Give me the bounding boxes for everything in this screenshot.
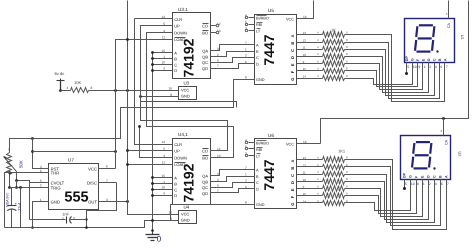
svg-text:2: 2	[429, 182, 431, 186]
wire U3.1 LOAD tie high	[116, 38, 167, 90]
resistor network RN1 1K label	[331, 28, 336, 33]
svg-text:LT: LT	[256, 29, 261, 33]
wire top QC to decoder C	[217, 58, 249, 63]
wire U1 segment c	[353, 50, 435, 96]
svg-text:8: 8	[346, 52, 348, 56]
wire U2 segment f	[353, 185, 417, 214]
svg-text:QB: QB	[202, 54, 208, 59]
svg-text:4: 4	[317, 170, 319, 174]
wire U3 GND loop	[141, 97, 237, 108]
wire U2 segment c	[353, 175, 435, 223]
svg-text:D: D	[290, 56, 295, 59]
wire U4.1 UP row	[126, 149, 166, 152]
svg-text:TRIG: TRIG	[51, 185, 61, 190]
svg-text:C: C	[433, 175, 437, 178]
unconnected terminal U6 BI/RBO	[245, 141, 247, 143]
svg-text:BO: BO	[202, 155, 208, 160]
svg-text:8: 8	[346, 38, 348, 42]
svg-text:10: 10	[413, 65, 417, 69]
svg-text:BI/RBO: BI/RBO	[256, 16, 269, 20]
unconnected terminal U3.1 BO	[216, 31, 219, 34]
svg-text:1: 1	[424, 65, 426, 69]
wire U2 segment e	[353, 185, 423, 217]
svg-text:1K: 1K	[331, 28, 336, 33]
svg-text:U6: U6	[268, 133, 274, 138]
wire U1 segment f	[353, 69, 418, 87]
wire DISC to lower jog	[99, 182, 117, 184]
unconnected terminal U3.1 CO	[216, 24, 219, 27]
wire U2 segment b	[353, 167, 441, 226]
svg-text:1: 1	[423, 182, 425, 186]
wire bottom QD to decoder D	[217, 189, 249, 193]
wire LOAD tie U4.1	[126, 163, 166, 166]
svg-text:8: 8	[245, 201, 247, 205]
svg-text:6: 6	[217, 184, 219, 188]
svg-text:5: 5	[407, 65, 409, 69]
svg-text:QD: QD	[202, 66, 208, 71]
IC U4.1 74192 ones counter	[161, 132, 220, 205]
wire U1 segment e	[353, 64, 423, 90]
capacitor C1 22uF	[6, 188, 22, 228]
svg-text:B: B	[174, 182, 177, 187]
svg-text:CO: CO	[202, 24, 208, 29]
svg-text:U5: U5	[268, 8, 274, 13]
svg-text:C: C	[174, 62, 177, 67]
svg-text:G: G	[411, 58, 415, 61]
svg-text:THR: THR	[51, 171, 60, 176]
wire 555 OUT	[99, 200, 129, 203]
wire U1 segment d	[353, 57, 429, 93]
svg-text:6v dc: 6v dc	[55, 71, 65, 76]
wire pot-bottom	[8, 171, 11, 189]
svg-text:D: D	[290, 181, 295, 184]
wire DISC/timing jog	[85, 183, 116, 229]
unconnected terminal U5 BI/RBO	[245, 16, 247, 18]
svg-text:2: 2	[429, 65, 431, 69]
wire U1 DP stub	[405, 69, 408, 76]
IC U7 555 timer	[40, 157, 108, 209]
svg-text:A: A	[290, 159, 295, 162]
svg-text:U2: U2	[457, 152, 461, 157]
svg-text:DISC: DISC	[87, 181, 97, 186]
svg-text:VCC: VCC	[181, 88, 189, 93]
svg-text:B: B	[290, 42, 295, 45]
wire +6V long line	[128, 1, 179, 215]
wire top QD to decoder D	[217, 64, 249, 69]
wire bottom QC to decoder C	[217, 183, 249, 188]
svg-text:QC: QC	[202, 60, 208, 65]
svg-text:DOWN: DOWN	[174, 155, 187, 160]
ground 0	[146, 229, 162, 243]
svg-text:1K1: 1K1	[338, 149, 346, 154]
svg-text:9: 9	[417, 182, 419, 186]
svg-text:QA: QA	[202, 174, 208, 179]
wire TRIG drop to rail	[20, 188, 22, 228]
svg-text:MDA 5V0: MDA 5V0	[6, 193, 10, 207]
svg-text:U4: U4	[184, 205, 190, 210]
wire CVOLT drop to 1nF	[29, 183, 31, 220]
wire THR left drop	[5, 173, 43, 228]
wire U6 VCC stub	[297, 143, 321, 145]
wire U5 VCC up	[303, 1, 314, 19]
unconnected terminal U6 RBI	[245, 147, 247, 149]
resistor network RN2 1K1 label	[338, 149, 346, 154]
svg-text:8: 8	[346, 45, 348, 49]
display U1 seven-segment CA	[405, 1, 465, 70]
svg-text:4: 4	[317, 52, 319, 56]
svg-text:QA: QA	[202, 49, 208, 54]
wire RST-line to 555 VCC drop	[33, 151, 116, 153]
svg-text:UP: UP	[174, 149, 180, 154]
svg-text:CA: CA	[447, 23, 451, 29]
svg-text:7447: 7447	[261, 159, 277, 190]
wire CVOLT down to TRIG row	[15, 181, 18, 189]
unconnected terminal U5 LT	[245, 29, 247, 31]
wire U2 segment d	[353, 182, 429, 220]
resistor network RN2 1K1	[303, 156, 353, 206]
svg-text:C: C	[290, 49, 295, 52]
wire +6V rail	[61, 90, 179, 92]
svg-text:GND: GND	[256, 78, 265, 82]
wire DOWN/BO chain	[147, 33, 234, 158]
svg-text:4: 4	[317, 184, 319, 188]
wire U4.1 B tie to GND	[151, 182, 166, 185]
svg-text:4: 4	[317, 38, 319, 42]
wire pot-top	[10, 139, 33, 153]
svg-text:U4,1: U4,1	[178, 132, 188, 137]
wire CVOLT jog	[17, 181, 43, 183]
svg-text:C: C	[256, 56, 259, 60]
svg-text:7: 7	[447, 182, 449, 186]
svg-text:8: 8	[91, 86, 93, 90]
svg-text:U7: U7	[68, 157, 74, 162]
svg-text:CA: CA	[444, 139, 448, 145]
wire top QB to decoder B	[217, 52, 249, 57]
junction RST-line	[31, 150, 34, 153]
svg-text:8: 8	[245, 76, 247, 80]
svg-text:D: D	[174, 68, 177, 73]
svg-text:74192: 74192	[181, 163, 197, 202]
svg-text:E: E	[290, 63, 295, 66]
junction pot-top/RST	[31, 137, 34, 140]
resistor network RN1 1K	[303, 31, 353, 81]
svg-text:8: 8	[346, 177, 348, 181]
svg-text:A: A	[174, 51, 177, 56]
svg-text:3: 3	[440, 129, 442, 133]
svg-text:BI/RBO: BI/RBO	[256, 141, 269, 145]
wire U2 CA riser	[443, 119, 445, 136]
wire top QA to decoder A	[217, 45, 249, 51]
wire bottom ground rail	[5, 221, 153, 228]
wire bottom QB to decoder B	[217, 177, 249, 182]
svg-text:GND: GND	[256, 203, 265, 207]
svg-text:D: D	[427, 58, 431, 61]
potentiometer R3 50K	[4, 148, 24, 175]
svg-text:1: 1	[245, 47, 247, 51]
wire wiper tail	[16, 172, 18, 181]
svg-text:C: C	[256, 181, 259, 185]
svg-text:5: 5	[405, 182, 407, 186]
wire RST drop	[33, 139, 43, 169]
power box U3 VCC/GND	[168, 81, 196, 100]
svg-text:VCC: VCC	[88, 166, 97, 171]
svg-text:0: 0	[157, 235, 162, 244]
svg-text:B: B	[438, 58, 442, 61]
svg-text:CO: CO	[202, 149, 208, 154]
svg-text:A: A	[290, 34, 295, 37]
svg-text:9: 9	[163, 67, 165, 71]
svg-text:B: B	[290, 167, 295, 170]
svg-text:CLR: CLR	[174, 142, 182, 147]
IC U6 7447 ones decoder	[245, 133, 307, 209]
svg-text:12: 12	[303, 38, 307, 42]
svg-text:4: 4	[317, 177, 319, 181]
svg-text:8: 8	[346, 59, 348, 63]
wire U2 segment a	[353, 160, 447, 230]
svg-text:G: G	[409, 175, 413, 178]
svg-text:BO: BO	[202, 30, 208, 35]
wire bottom QA to decoder A	[217, 170, 249, 176]
svg-text:C: C	[433, 58, 437, 61]
svg-text:6: 6	[441, 182, 443, 186]
wire U1 segment a	[353, 35, 445, 102]
wire U4.1 DOWN feed	[138, 125, 166, 157]
svg-text:9: 9	[418, 65, 420, 69]
svg-text:74192: 74192	[181, 38, 197, 77]
svg-text:4: 4	[317, 59, 319, 63]
svg-text:1: 1	[245, 172, 247, 176]
svg-text:9: 9	[163, 192, 165, 196]
wire CA supply rail	[321, 1, 469, 144]
battery V1 6v dc	[55, 71, 65, 92]
svg-text:3: 3	[446, 12, 448, 16]
junction TRIG/drop	[19, 186, 22, 189]
svg-text:16: 16	[168, 87, 172, 91]
wire U3.1 A tie to GND	[151, 51, 166, 54]
wire U2 segment g	[353, 185, 411, 211]
wire U4.1 C tie to GND	[151, 188, 166, 191]
svg-text:10: 10	[411, 182, 415, 186]
svg-text:QB: QB	[202, 179, 208, 184]
power box U4 VCC/GND	[168, 205, 196, 224]
svg-text:VCC: VCC	[181, 212, 189, 217]
wire U2 DP stub	[403, 185, 406, 191]
svg-text:OUT: OUT	[88, 199, 97, 204]
svg-text:D: D	[427, 175, 431, 178]
svg-text:CLR: CLR	[174, 17, 182, 22]
wire U1 segment g	[353, 69, 413, 85]
wire U3.1 D tie to GND	[151, 69, 166, 72]
junction +6V/CLR-line	[126, 89, 129, 92]
svg-text:10K: 10K	[74, 80, 81, 85]
junction VCC-drop	[114, 150, 117, 153]
svg-text:8: 8	[106, 164, 108, 168]
svg-text:8: 8	[346, 74, 348, 78]
svg-text:6: 6	[440, 65, 442, 69]
svg-text:A: A	[174, 176, 177, 181]
wire U1 segment b	[353, 43, 440, 99]
svg-text:G: G	[290, 78, 295, 81]
svg-text:LT: LT	[256, 154, 261, 158]
svg-text:GND: GND	[181, 94, 190, 99]
svg-text:4: 4	[317, 45, 319, 49]
svg-text:QD: QD	[202, 191, 208, 196]
svg-text:14: 14	[303, 74, 307, 78]
svg-text:D: D	[174, 193, 177, 198]
svg-text:UP: UP	[174, 24, 180, 29]
wire CLR branch to U3.1	[135, 18, 167, 20]
wire 555 VCC drop	[99, 91, 116, 169]
svg-text:8: 8	[346, 184, 348, 188]
junction CA rail / U2	[442, 117, 445, 120]
wire U3.1 C tie to GND	[151, 63, 166, 66]
svg-text:50K: 50K	[19, 160, 24, 168]
wire GND rail vertical	[152, 53, 154, 233]
wire U4 GND	[151, 219, 178, 222]
svg-text:RBI: RBI	[256, 23, 262, 27]
IC U5 7447 tens decoder	[245, 8, 307, 85]
display U2 seven-segment CA	[401, 119, 462, 186]
svg-text:6: 6	[217, 59, 219, 63]
IC U3.1 74192 tens counter	[161, 7, 220, 79]
wire U3 VCC stub	[173, 90, 179, 92]
svg-text:4: 4	[67, 86, 69, 90]
svg-text:D: D	[256, 63, 259, 67]
svg-text:14: 14	[161, 140, 165, 144]
svg-text:DP: DP	[403, 172, 407, 178]
svg-text:B: B	[174, 57, 177, 62]
junction wiper/CVOLT	[15, 179, 18, 182]
svg-text:RBI: RBI	[256, 148, 262, 152]
svg-text:7: 7	[217, 64, 219, 68]
svg-text:7: 7	[446, 65, 448, 69]
svg-text:8: 8	[346, 170, 348, 174]
svg-text:7447: 7447	[261, 34, 277, 65]
svg-text:4: 4	[435, 65, 437, 69]
wire U6 GND route	[171, 205, 255, 221]
unconnected terminal U6 LT	[245, 154, 247, 156]
wire U3 GND to left	[139, 95, 178, 98]
wire TRIG row	[10, 187, 43, 189]
unconnected terminal U5 RBI	[245, 23, 247, 25]
svg-text:4: 4	[435, 182, 437, 186]
wire CLR common line	[135, 19, 167, 145]
svg-text:B: B	[439, 175, 443, 178]
svg-text:G: G	[290, 203, 295, 206]
svg-text:GND: GND	[51, 199, 60, 204]
svg-text:A: A	[444, 58, 448, 61]
svg-text:A: A	[445, 175, 449, 178]
svg-text:DOWN: DOWN	[174, 30, 187, 35]
wire U4.1 D tie to GND	[151, 194, 166, 197]
junction +6V/555-VCC	[114, 89, 117, 92]
svg-text:VCC: VCC	[286, 18, 294, 22]
svg-text:555: 555	[64, 190, 88, 206]
svg-text:GND: GND	[181, 218, 190, 223]
wire U5 GND route	[33, 80, 249, 139]
wire U4.1 A tie to GND	[151, 176, 166, 179]
svg-text:22uf: 22uf	[17, 202, 22, 211]
svg-text:C: C	[174, 187, 177, 192]
wire U1 CA riser	[448, 1, 450, 19]
wire 555 GND to bottom rail	[31, 202, 48, 229]
capacitor C2 1nF	[30, 212, 87, 223]
svg-text:U1: U1	[460, 35, 464, 40]
svg-text:DP: DP	[405, 56, 409, 62]
wire UP/CO chain	[141, 26, 228, 151]
svg-text:4: 4	[317, 74, 319, 78]
svg-text:C: C	[290, 174, 295, 177]
svg-text:E: E	[290, 188, 295, 191]
wire U3.1 B tie to GND	[151, 57, 166, 60]
resistor R1 10K	[67, 80, 93, 93]
svg-text:QC: QC	[202, 185, 208, 190]
svg-text:VCC: VCC	[286, 143, 294, 147]
svg-text:U3.1: U3.1	[178, 7, 188, 12]
svg-text:U3: U3	[184, 81, 190, 86]
svg-text:D: D	[256, 188, 259, 192]
